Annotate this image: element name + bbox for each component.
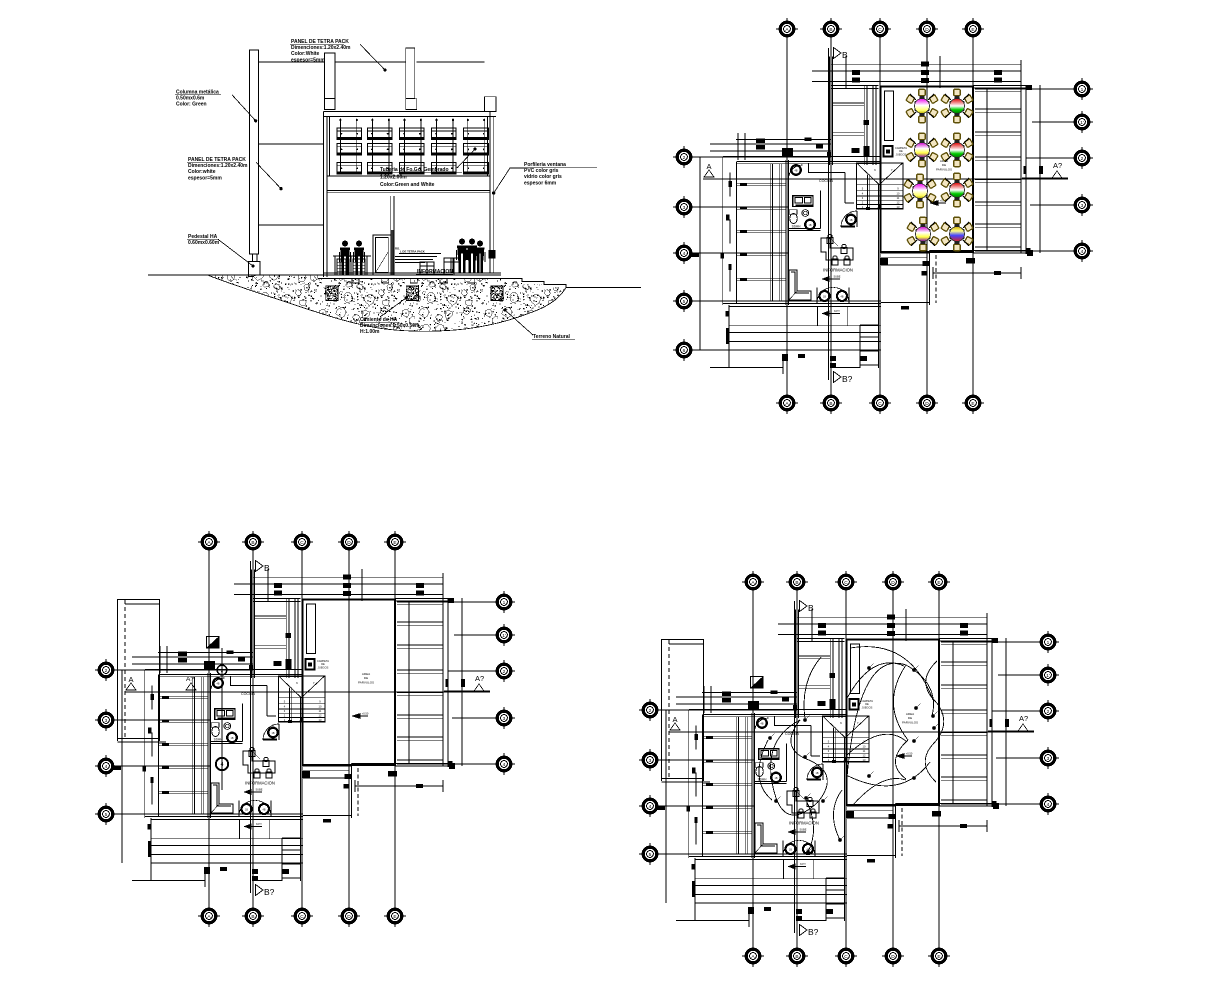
svg-text:3: 3	[1081, 203, 1084, 209]
svg-text:4: 4	[649, 804, 652, 810]
svg-text:H:1.00m: H:1.00m	[360, 329, 380, 335]
svg-text:1': 1'	[502, 633, 506, 639]
svg-text:D: D	[347, 914, 351, 920]
svg-text:C: C	[300, 914, 304, 920]
svg-text:D: D	[347, 540, 351, 546]
svg-text:D: D	[891, 954, 895, 960]
svg-text:B: B	[251, 540, 254, 546]
svg-text:5: 5	[683, 299, 686, 305]
svg-text:4: 4	[503, 762, 506, 768]
svg-text:L DE TETRA PACK: L DE TETRA PACK	[400, 250, 425, 254]
svg-text:Dimenciones:0.50x0.50m: Dimenciones:0.50x0.50m	[360, 323, 420, 329]
svg-text:E: E	[971, 27, 974, 33]
svg-text:4: 4	[1047, 802, 1050, 808]
svg-text:3: 3	[105, 718, 108, 724]
svg-text:espesor=5mm: espesor=5mm	[291, 57, 325, 63]
svg-text:1: 1	[1047, 640, 1050, 646]
svg-text:Color: Green: Color: Green	[176, 102, 207, 108]
svg-text:B: B	[795, 954, 798, 960]
svg-text:2: 2	[105, 668, 108, 674]
svg-text:0.60mx0.60m: 0.60mx0.60m	[188, 240, 220, 246]
svg-text:C: C	[878, 27, 882, 33]
svg-text:B: B	[829, 27, 832, 33]
svg-text:B: B	[251, 914, 254, 920]
svg-text:D: D	[925, 27, 929, 33]
svg-text:3: 3	[1047, 756, 1050, 762]
svg-text:3: 3	[683, 205, 686, 211]
svg-text:4: 4	[1081, 249, 1084, 255]
svg-text:C: C	[878, 401, 882, 407]
svg-text:vidrio color gris: vidrio color gris	[524, 174, 562, 180]
svg-text:espesor 6mm: espesor 6mm	[524, 180, 557, 186]
svg-text:0.50mx0.6m: 0.50mx0.6m	[176, 96, 205, 102]
svg-text:5: 5	[649, 852, 652, 858]
svg-text:D: D	[891, 580, 895, 586]
svg-text:1: 1	[503, 600, 506, 606]
svg-text:4: 4	[105, 764, 108, 770]
svg-text:C: C	[844, 954, 848, 960]
svg-text:E: E	[393, 540, 396, 546]
svg-text:Dimenciones:1.20x2.40m: Dimenciones:1.20x2.40m	[291, 45, 351, 51]
svg-text:E: E	[937, 954, 940, 960]
svg-text:1': 1'	[1080, 120, 1084, 126]
svg-text:A?: A?	[186, 676, 194, 683]
svg-text:2: 2	[683, 155, 686, 161]
svg-text:2: 2	[1047, 709, 1050, 715]
svg-text:C: C	[844, 580, 848, 586]
svg-text:E: E	[393, 914, 396, 920]
svg-text:6: 6	[683, 348, 686, 354]
svg-text:2: 2	[1081, 156, 1084, 162]
svg-text:5: 5	[105, 812, 108, 818]
svg-text:Color:white: Color:white	[188, 169, 216, 175]
svg-text:Color:Green and White: Color:Green and White	[380, 182, 435, 188]
svg-text:E: E	[937, 580, 940, 586]
svg-text:2: 2	[503, 669, 506, 675]
svg-text:2: 2	[649, 708, 652, 714]
svg-text:1: 1	[1081, 87, 1084, 93]
svg-text:Color:White: Color:White	[291, 51, 320, 57]
svg-text:1.20x2.00m: 1.20x2.00m	[380, 175, 407, 181]
svg-text:1': 1'	[1046, 673, 1050, 679]
svg-text:4: 4	[683, 251, 686, 257]
svg-text:PVC color gris: PVC color gris	[524, 168, 559, 174]
svg-text:Dimenciones:1.20x2.40m: Dimenciones:1.20x2.40m	[188, 163, 248, 169]
svg-text:E: E	[971, 401, 974, 407]
svg-text:espesor=5mm: espesor=5mm	[188, 175, 222, 181]
svg-text:B: B	[795, 580, 798, 586]
svg-text:3: 3	[503, 716, 506, 722]
svg-text:B: B	[829, 401, 832, 407]
svg-text:D: D	[925, 401, 929, 407]
svg-text:3: 3	[649, 758, 652, 764]
svg-text:C: C	[300, 540, 304, 546]
